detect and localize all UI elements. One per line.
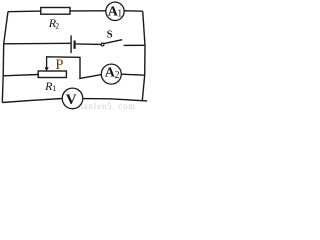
wire bottom right <box>83 99 147 101</box>
wire top left <box>8 10 41 13</box>
wire battery to switch <box>76 43 101 46</box>
wire top right <box>124 10 143 12</box>
wiper arrow stem <box>46 56 48 67</box>
rheostat R1 box <box>38 71 66 78</box>
wire battery row left <box>4 42 71 45</box>
wire top middle <box>70 10 106 12</box>
wire left border <box>2 12 8 103</box>
wiper arrowhead <box>45 67 49 71</box>
wire third row left <box>3 75 38 76</box>
svg-text:2: 2 <box>115 70 120 81</box>
wire A2 to right border <box>121 74 144 75</box>
ammeter A1 <box>106 2 124 20</box>
wiper vertical wire <box>79 57 81 79</box>
svg-text:S: S <box>107 30 113 41</box>
voltmeter V <box>62 88 83 109</box>
background <box>0 0 147 113</box>
battery short plate <box>73 41 75 49</box>
svg-text:V: V <box>66 92 77 108</box>
ammeter A2 <box>101 64 121 84</box>
wire bottom left <box>2 99 62 103</box>
battery long plate <box>70 35 72 53</box>
switch S pivot <box>101 43 104 46</box>
svg-text:manfen5. com: manfen5. com <box>76 101 136 111</box>
wire switch fixed side <box>124 44 145 46</box>
wire wiper to A2 <box>79 75 101 79</box>
svg-text:1: 1 <box>52 84 56 93</box>
switch blade <box>104 40 122 44</box>
svg-text:1: 1 <box>117 9 122 20</box>
wire right border <box>142 11 145 100</box>
svg-text:2: 2 <box>55 21 59 30</box>
wiper horizontal wire <box>46 56 80 59</box>
resistor R2 <box>41 8 70 15</box>
